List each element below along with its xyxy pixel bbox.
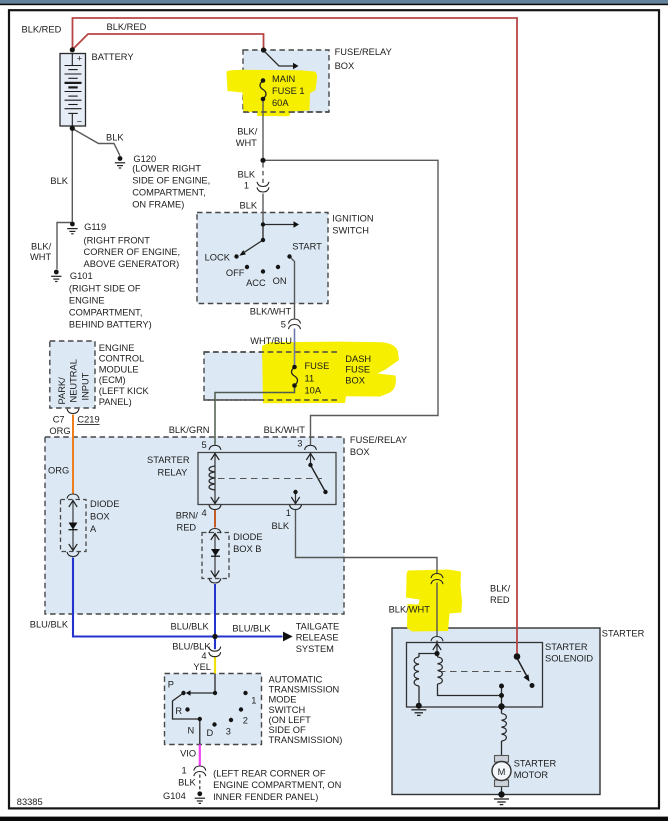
- svg-text:PANEL): PANEL): [99, 397, 132, 407]
- svg-text:1: 1: [244, 181, 249, 191]
- svg-text:C7: C7: [53, 415, 65, 425]
- svg-text:(ON LEFT: (ON LEFT: [269, 715, 312, 725]
- svg-text:TAILGATE: TAILGATE: [296, 621, 340, 631]
- svg-text:CONTROL: CONTROL: [99, 354, 144, 364]
- svg-text:MOTOR: MOTOR: [514, 770, 549, 780]
- svg-text:BLK/WHT: BLK/WHT: [389, 605, 431, 615]
- svg-text:BATTERY: BATTERY: [92, 52, 134, 62]
- svg-text:SWITCH: SWITCH: [269, 705, 306, 715]
- svg-text:10A: 10A: [305, 386, 322, 396]
- svg-text:1: 1: [286, 508, 291, 518]
- svg-text:FUSE: FUSE: [345, 365, 370, 375]
- svg-text:FUSE/RELAY: FUSE/RELAY: [335, 47, 392, 57]
- svg-text:ON: ON: [273, 276, 287, 286]
- svg-text:SIDE OF: SIDE OF: [269, 725, 307, 735]
- svg-text:PARK/: PARK/: [57, 377, 67, 405]
- svg-text:A: A: [90, 524, 97, 534]
- svg-text:BLK/RED: BLK/RED: [107, 22, 147, 32]
- svg-text:R: R: [175, 706, 182, 716]
- svg-text:INNER FENDER PANEL): INNER FENDER PANEL): [213, 792, 318, 802]
- svg-text:C219: C219: [77, 415, 99, 425]
- svg-text:RELEASE: RELEASE: [296, 633, 339, 643]
- svg-text:BRN/: BRN/: [176, 511, 199, 521]
- svg-text:1: 1: [251, 696, 256, 706]
- svg-text:BEHIND BATTERY): BEHIND BATTERY): [69, 320, 152, 330]
- svg-text:VIO: VIO: [180, 749, 196, 759]
- svg-text:OFF: OFF: [226, 268, 245, 278]
- svg-text:BLK: BLK: [272, 521, 290, 531]
- svg-text:BLU/BLK: BLU/BLK: [172, 641, 211, 651]
- svg-text:MODE: MODE: [269, 695, 297, 705]
- svg-text:BOX: BOX: [90, 512, 110, 522]
- svg-text:G104: G104: [163, 791, 186, 801]
- svg-text:BLK: BLK: [50, 176, 68, 186]
- svg-text:60A: 60A: [272, 98, 289, 108]
- svg-text:IGNITION: IGNITION: [332, 213, 373, 223]
- svg-text:RED: RED: [490, 595, 510, 605]
- svg-text:2: 2: [243, 715, 248, 725]
- svg-text:ENGINE: ENGINE: [99, 343, 135, 353]
- svg-text:STARTER: STARTER: [147, 455, 190, 465]
- svg-text:WHT: WHT: [236, 138, 257, 148]
- svg-text:FUSE/RELAY: FUSE/RELAY: [350, 435, 407, 445]
- svg-text:ORG: ORG: [48, 465, 69, 475]
- svg-text:5: 5: [281, 319, 286, 329]
- svg-text:COMPARTMENT,: COMPARTMENT,: [132, 188, 206, 198]
- svg-text:83385: 83385: [17, 797, 43, 807]
- svg-text:YEL: YEL: [193, 662, 211, 672]
- svg-text:TRANSMISSION): TRANSMISSION): [269, 735, 343, 745]
- svg-text:BLK/: BLK/: [31, 242, 52, 252]
- svg-text:MODULE: MODULE: [99, 364, 139, 374]
- svg-text:+: +: [77, 54, 82, 64]
- svg-text:TRANSMISSION: TRANSMISSION: [269, 685, 340, 695]
- svg-text:(LOWER RIGHT: (LOWER RIGHT: [132, 164, 201, 174]
- svg-text:N: N: [188, 726, 195, 736]
- svg-text:(RIGHT SIDE OF: (RIGHT SIDE OF: [69, 284, 141, 294]
- svg-text:STARTER: STARTER: [602, 628, 645, 638]
- svg-text:LOCK: LOCK: [205, 253, 231, 263]
- svg-text:BOX: BOX: [345, 375, 365, 385]
- svg-text:G101: G101: [70, 271, 93, 281]
- svg-text:ORG: ORG: [49, 426, 70, 436]
- svg-text:BLK: BLK: [178, 778, 196, 788]
- svg-text:RED: RED: [177, 523, 197, 533]
- svg-text:ACC: ACC: [246, 278, 266, 288]
- svg-text:BLK/RED: BLK/RED: [22, 24, 62, 34]
- svg-text:(LEFT REAR CORNER OF: (LEFT REAR CORNER OF: [213, 768, 326, 778]
- svg-text:BLK: BLK: [240, 201, 258, 211]
- svg-text:ENGINE: ENGINE: [69, 296, 105, 306]
- svg-text:NEUTRAL: NEUTRAL: [69, 359, 79, 402]
- svg-text:SYSTEM: SYSTEM: [296, 644, 334, 654]
- svg-text:BLK: BLK: [238, 169, 256, 179]
- svg-text:BLK: BLK: [106, 132, 124, 142]
- svg-text:(LEFT KICK: (LEFT KICK: [99, 386, 150, 396]
- svg-text:INPUT: INPUT: [80, 372, 90, 400]
- svg-text:BOX B: BOX B: [233, 544, 261, 554]
- svg-text:STARTER: STARTER: [545, 642, 588, 652]
- svg-text:BLU/BLK: BLU/BLK: [30, 619, 69, 629]
- svg-text:ENGINE COMPARTMENT, ON: ENGINE COMPARTMENT, ON: [213, 780, 341, 790]
- svg-text:WHT/BLU: WHT/BLU: [250, 336, 292, 346]
- svg-text:BLK/: BLK/: [490, 583, 511, 593]
- svg-text:D: D: [207, 728, 214, 738]
- svg-text:DASH: DASH: [345, 354, 371, 364]
- svg-text:BLK/WHT: BLK/WHT: [250, 306, 292, 316]
- svg-text:(RIGHT FRONT: (RIGHT FRONT: [84, 235, 151, 245]
- svg-text:BOX: BOX: [350, 447, 370, 457]
- svg-text:5: 5: [202, 440, 207, 450]
- svg-text:MAIN: MAIN: [272, 74, 295, 84]
- svg-text:4: 4: [202, 508, 207, 518]
- svg-text:G119: G119: [84, 222, 106, 232]
- svg-text:SOLENOID: SOLENOID: [545, 653, 593, 663]
- svg-text:COMPARTMENT,: COMPARTMENT,: [69, 308, 143, 318]
- svg-text:SIDE OF ENGINE,: SIDE OF ENGINE,: [132, 176, 210, 186]
- svg-text:STARTER: STARTER: [514, 759, 557, 769]
- svg-text:ABOVE GENERATOR): ABOVE GENERATOR): [84, 259, 180, 269]
- svg-text:−: −: [77, 117, 82, 127]
- svg-text:4: 4: [201, 651, 206, 661]
- svg-text:BLK/GRN: BLK/GRN: [169, 425, 210, 435]
- svg-text:M: M: [498, 767, 506, 777]
- svg-text:CORNER OF ENGINE,: CORNER OF ENGINE,: [84, 247, 181, 257]
- svg-text:BLK/: BLK/: [237, 127, 258, 137]
- svg-text:3: 3: [297, 438, 302, 448]
- svg-text:(ECM): (ECM): [99, 375, 126, 385]
- svg-text:P: P: [168, 679, 174, 689]
- svg-text:BOX: BOX: [335, 61, 355, 71]
- svg-text:DIODE: DIODE: [90, 499, 119, 509]
- svg-text:AUTOMATIC: AUTOMATIC: [269, 675, 323, 685]
- svg-text:BLU/BLK: BLU/BLK: [232, 623, 271, 633]
- svg-text:FUSE 1: FUSE 1: [272, 86, 305, 96]
- svg-text:G120: G120: [133, 154, 156, 164]
- svg-text:BLU/BLK: BLU/BLK: [171, 621, 210, 631]
- svg-text:DIODE: DIODE: [233, 532, 262, 542]
- svg-text:3: 3: [226, 726, 231, 736]
- svg-text:START: START: [292, 242, 322, 252]
- svg-text:BLK/WHT: BLK/WHT: [264, 425, 306, 435]
- svg-text:RELAY: RELAY: [158, 467, 188, 477]
- svg-text:FUSE: FUSE: [305, 361, 330, 371]
- svg-text:SWITCH: SWITCH: [332, 226, 369, 236]
- svg-text:1: 1: [182, 766, 187, 776]
- svg-text:ON FRAME): ON FRAME): [132, 200, 184, 210]
- svg-text:11: 11: [305, 373, 315, 383]
- svg-text:WHT: WHT: [30, 252, 51, 262]
